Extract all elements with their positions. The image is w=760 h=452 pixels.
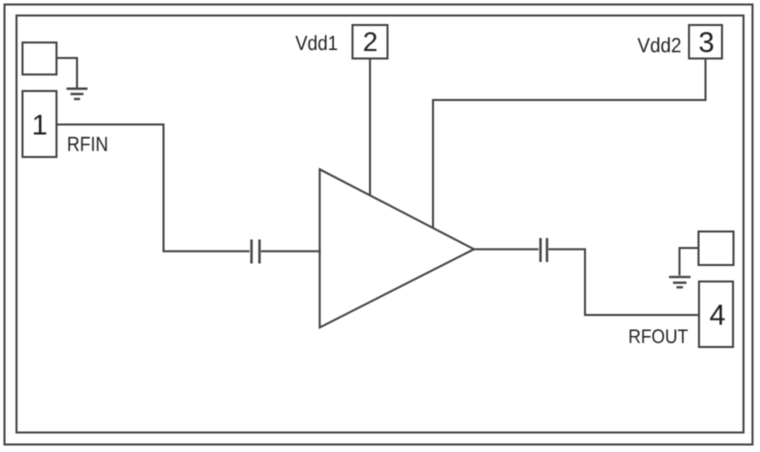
wire from amplifier output to output capacitor [474,248,539,250]
label Vdd1 [295,35,337,50]
pin 1 box [23,91,57,157]
pin 2 box [353,25,388,59]
pad square S2 (right) [699,232,734,266]
ground symbol (right) [669,277,691,287]
pin number 3 [700,32,714,52]
op-amp U1 (amplifier triangle) [320,169,474,327]
capacitor C1 (input DC block) [252,240,260,264]
label RFIN [68,137,106,151]
wire from S2 to ground [680,248,699,276]
pin number 2 [364,32,376,51]
pin number 4 [710,305,725,325]
pin 4 box [699,282,733,348]
pin 3 box [689,25,722,59]
label RFOUT [630,329,688,343]
wire from pin 3 (Vdd2) into amplifier [433,59,706,228]
capacitor C2 (output DC block) [541,238,548,262]
ground symbol (top-left) [67,89,88,99]
label Vdd2 [638,37,681,52]
pin number 1 [34,115,46,135]
wire from pin 2 (Vdd1) into amplifier [369,59,371,196]
wire from C1 to amplifier input [261,250,321,252]
wire from C2 to pin 4 [549,249,700,315]
pad square S1 (top-left) [23,43,57,75]
wire from S1 to ground [57,58,78,88]
wire from pin 1 to input capacitor [57,125,250,252]
